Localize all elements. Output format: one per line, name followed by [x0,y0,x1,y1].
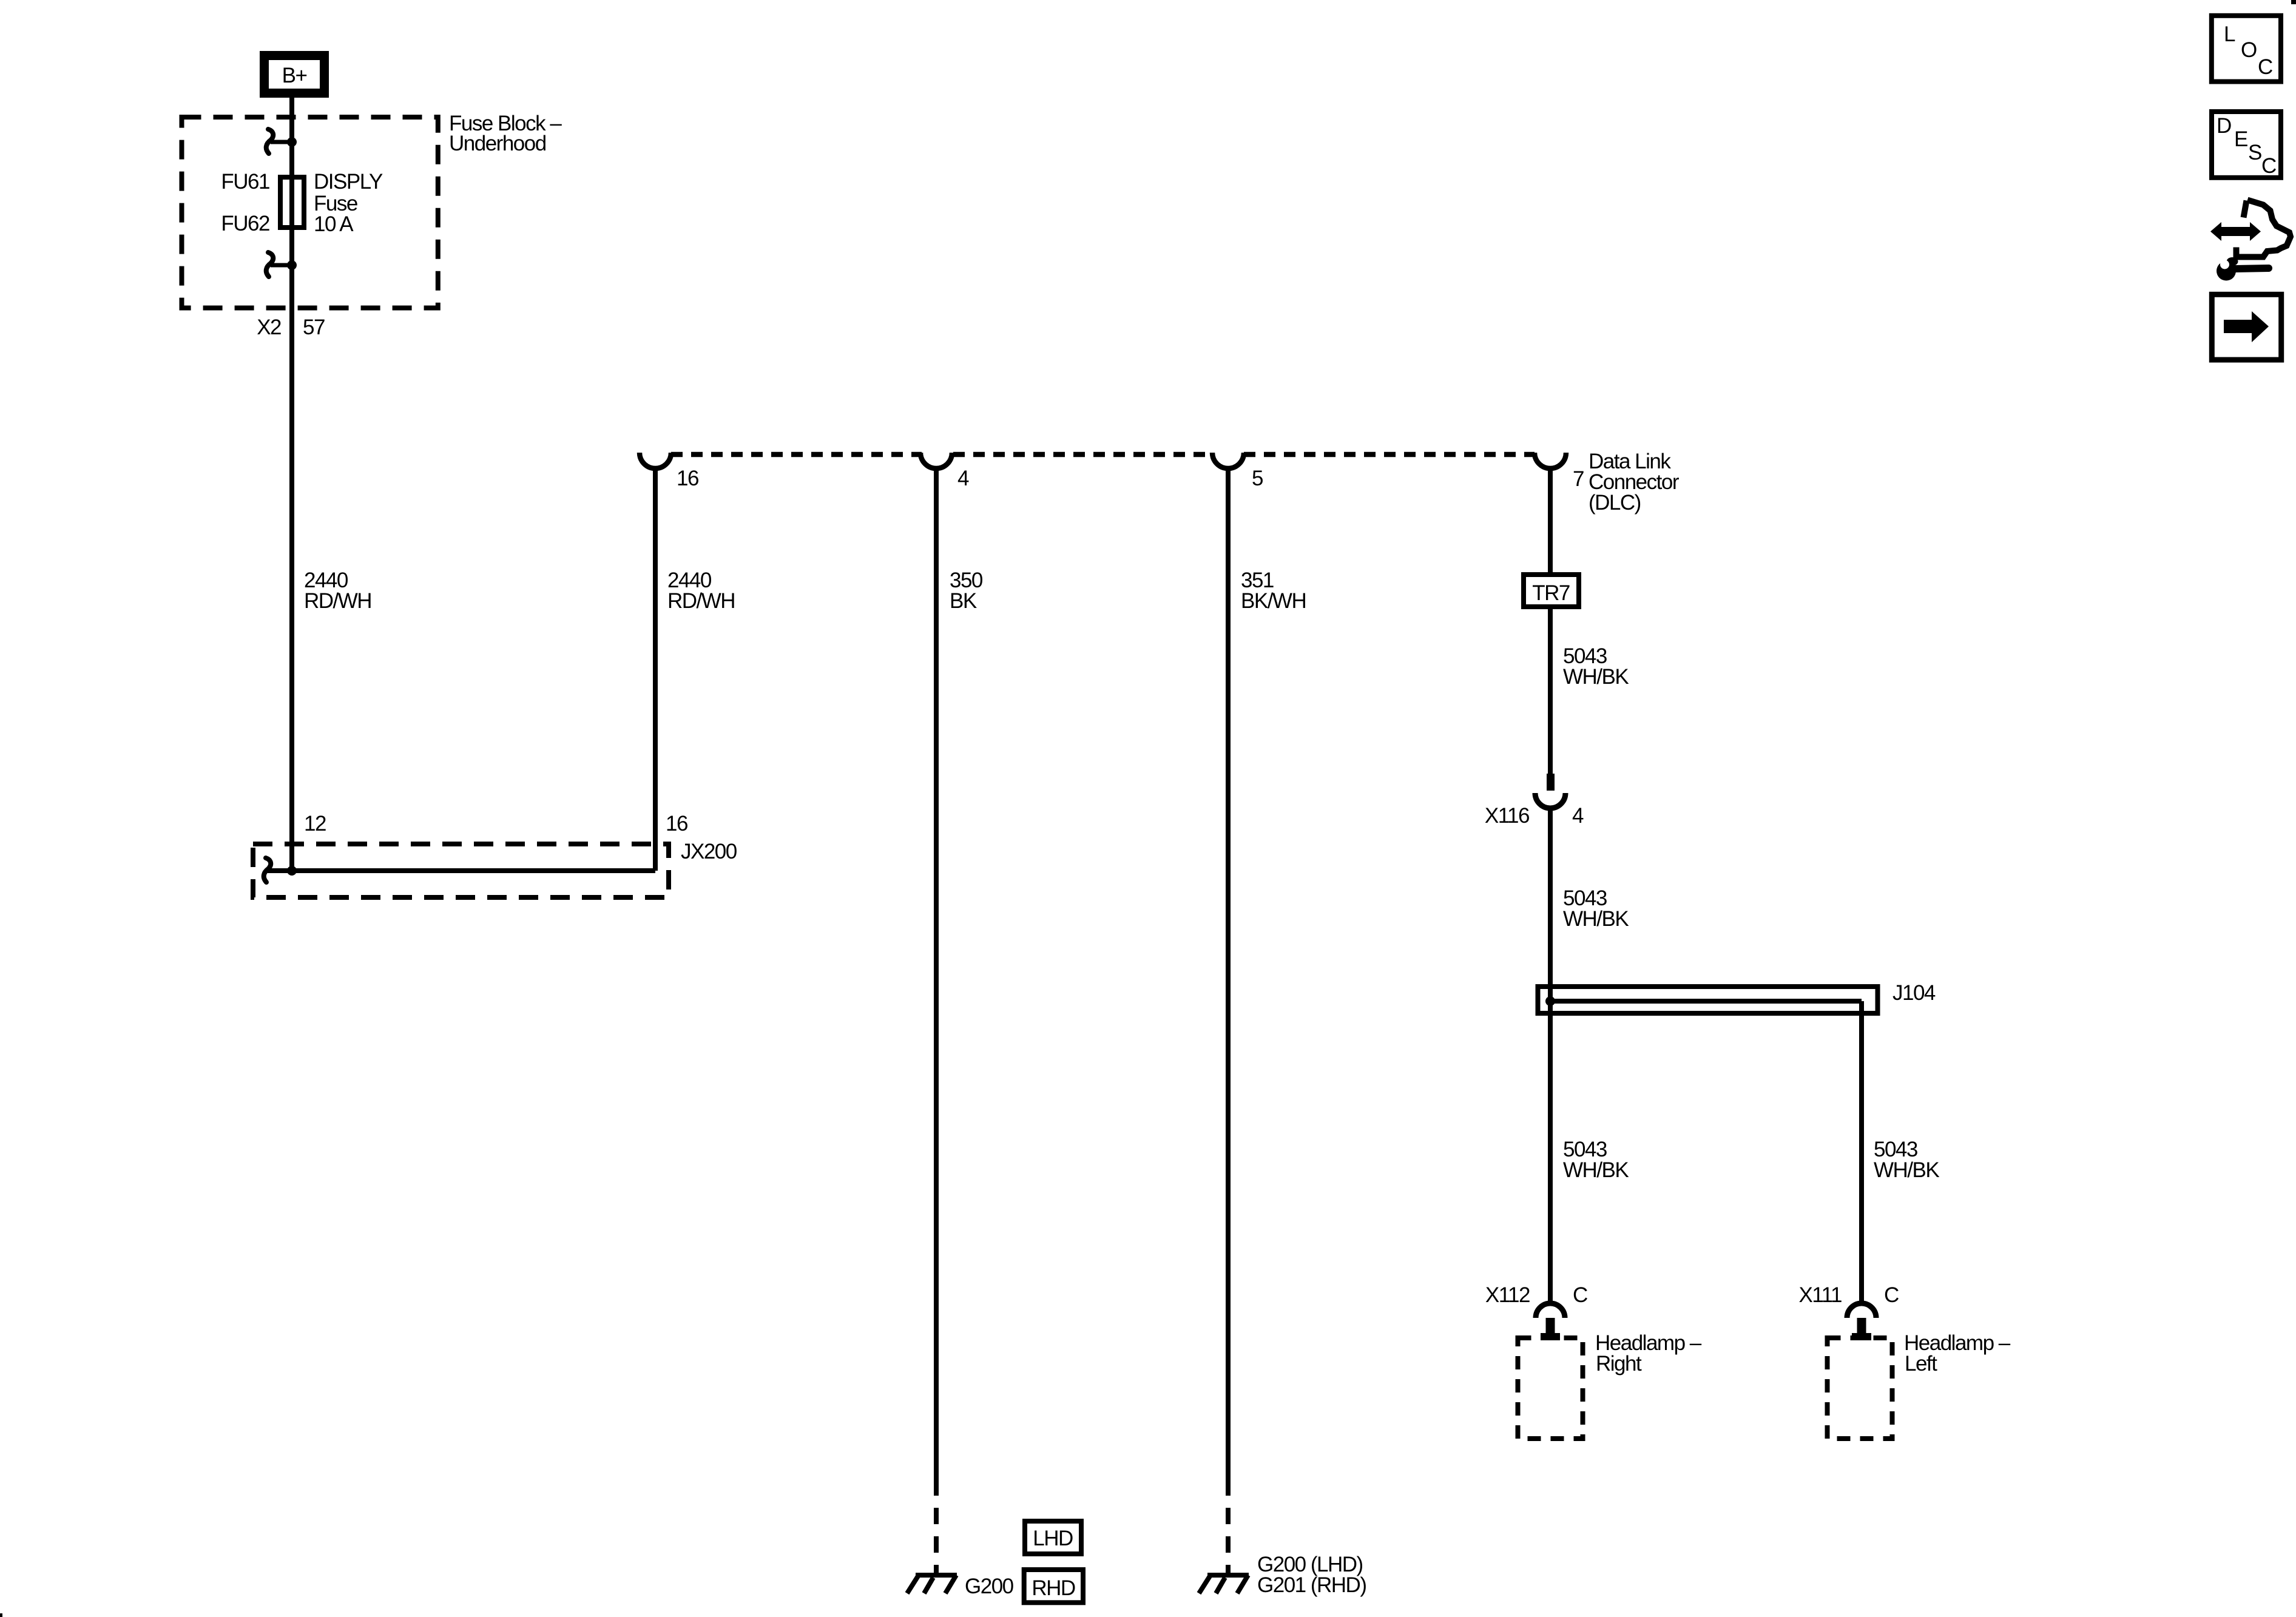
svg-text:LHD: LHD [1033,1527,1073,1550]
svg-text:J104: J104 [1893,981,1936,1005]
svg-text:12: 12 [304,812,326,836]
svg-text:Underhood: Underhood [449,132,546,155]
svg-text:G201 (RHD): G201 (RHD) [1257,1573,1366,1597]
svg-text:WH/BK: WH/BK [1563,907,1629,931]
svg-text:B+: B+ [282,64,307,87]
svg-text:WH/BK: WH/BK [1563,665,1629,689]
svg-text:Left: Left [1905,1352,1937,1376]
svg-text:Right: Right [1596,1352,1642,1376]
svg-text:4: 4 [957,467,969,490]
svg-text:16: 16 [666,812,687,836]
svg-text:TR7: TR7 [1532,581,1570,605]
svg-text:X112: X112 [1485,1283,1530,1307]
svg-text:X111: X111 [1798,1283,1842,1307]
svg-text:10 A: 10 A [314,212,354,236]
svg-text:C: C [1884,1283,1899,1307]
svg-text:5: 5 [1252,467,1263,490]
svg-text:O: O [2241,38,2257,62]
svg-text:C: C [2261,154,2276,178]
svg-text:D: D [2217,114,2231,138]
svg-text:57: 57 [303,316,325,339]
svg-text:S: S [2248,141,2261,164]
svg-text:(DLC): (DLC) [1589,491,1641,515]
svg-text:FU61: FU61 [221,170,269,194]
svg-text:RD/WH: RD/WH [667,589,735,613]
svg-text:WH/BK: WH/BK [1563,1158,1629,1182]
svg-text:G200: G200 [965,1575,1014,1598]
svg-text:FU62: FU62 [221,212,269,235]
svg-text:4: 4 [1572,804,1584,828]
svg-text:16: 16 [677,467,698,490]
svg-text:7: 7 [1573,467,1584,491]
svg-text:JX200: JX200 [681,840,737,863]
svg-text:L: L [2224,22,2235,46]
svg-text:DISPLY: DISPLY [314,170,383,194]
svg-text:RD/WH: RD/WH [304,589,371,613]
svg-text:X116: X116 [1485,804,1529,828]
svg-text:C: C [1573,1283,1587,1307]
svg-text:X2: X2 [257,316,281,339]
svg-text:C: C [2258,55,2272,79]
svg-text:E: E [2234,127,2247,151]
svg-text:BK: BK [950,589,977,613]
svg-text:WH/BK: WH/BK [1874,1158,1939,1182]
svg-text:BK/WH: BK/WH [1241,589,1306,613]
svg-text:RHD: RHD [1032,1576,1075,1600]
